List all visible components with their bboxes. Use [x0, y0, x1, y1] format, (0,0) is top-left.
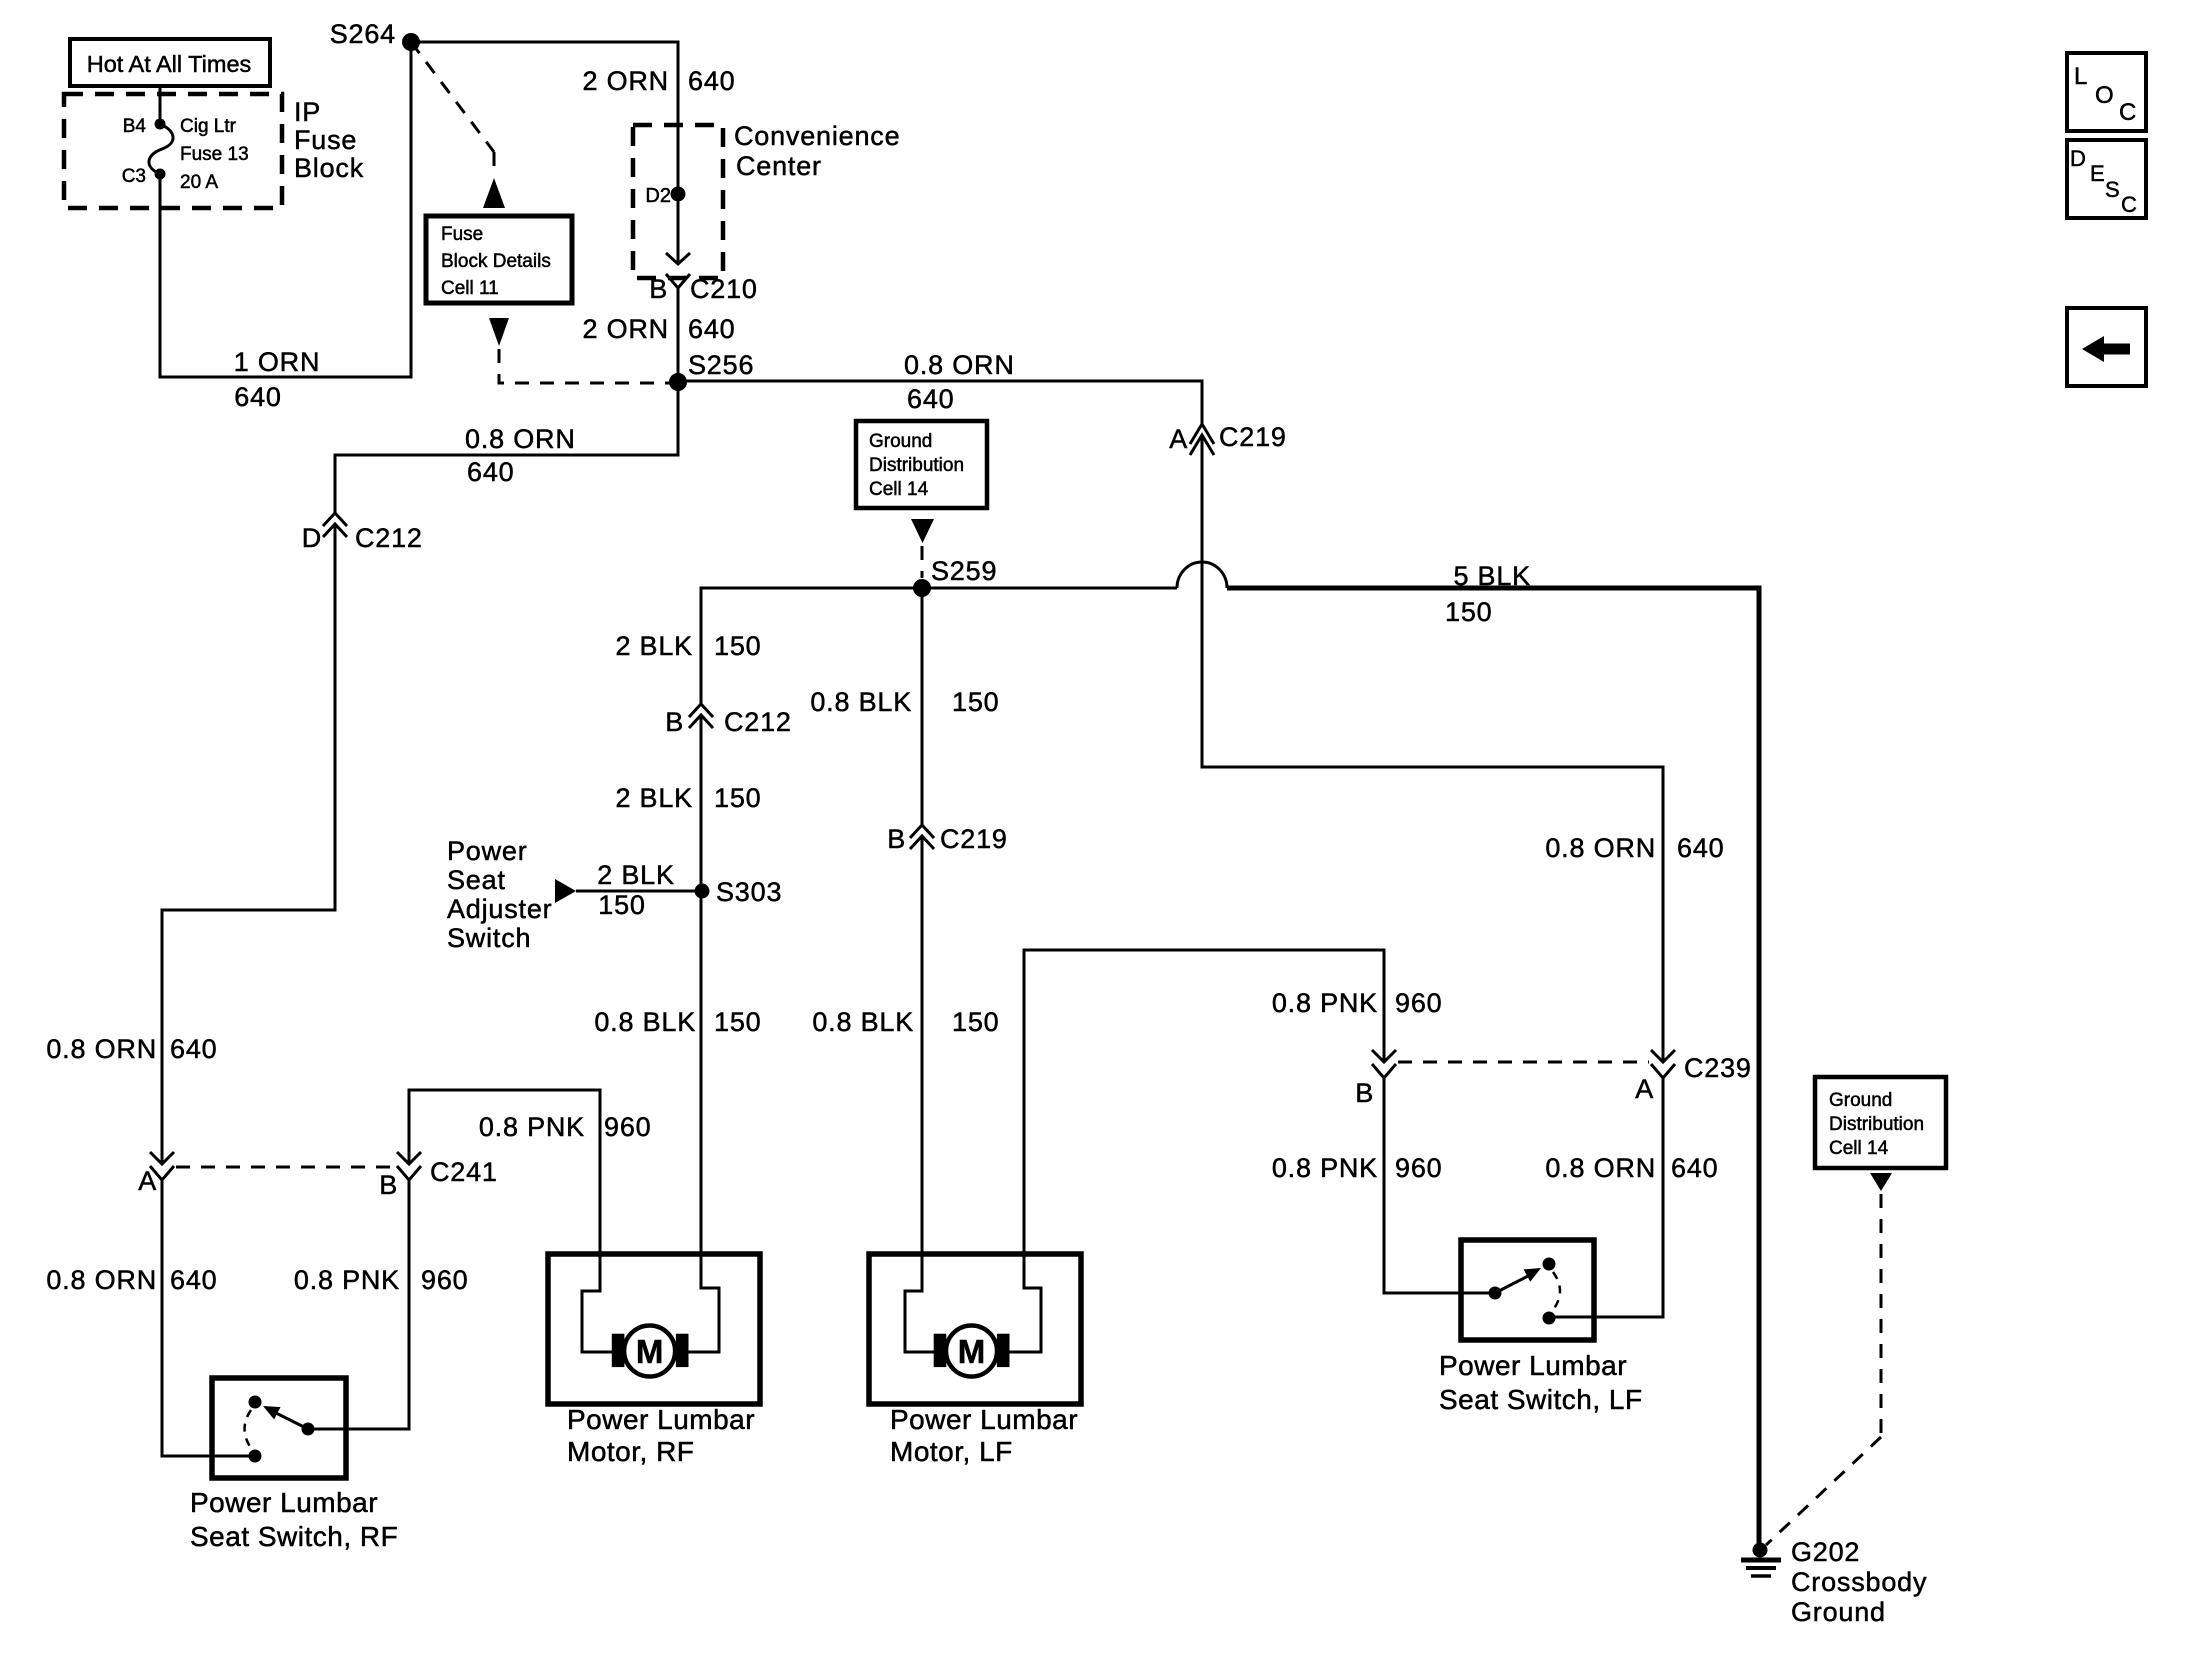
reference box Fuse Block Details Cell 11: [426, 216, 572, 303]
svg-text:Ground: Ground: [1829, 1090, 1892, 1111]
svg-text:20 A: 20 A: [180, 172, 218, 193]
svg-text:Crossbody: Crossbody: [1791, 1567, 1927, 1597]
dashed leader from box to S259: [921, 546, 924, 578]
svg-text:C219: C219: [1219, 422, 1287, 452]
svg-text:S: S: [2105, 177, 2120, 202]
dashed connector line C241: [176, 1166, 396, 1169]
svg-text:Fuse 13: Fuse 13: [180, 144, 249, 165]
wire 0.8 PNK 960 from C239 B to Power Lumbar Seat Switch LF: [1384, 1078, 1495, 1293]
svg-text:A: A: [1169, 424, 1188, 454]
svg-text:Power Lumbar: Power Lumbar: [1439, 1350, 1627, 1381]
svg-text:0.8 ORN: 0.8 ORN: [46, 1034, 157, 1064]
svg-text:150: 150: [714, 631, 761, 661]
wire 0.8 PNK 960 from C241 B to motor RF: [409, 1090, 600, 1254]
wire 0.8 ORN 640 from S256 left down to connector C212 D: [335, 381, 678, 513]
ground distribution reference box (right): [1815, 1077, 1946, 1168]
svg-text:0.8 PNK: 0.8 PNK: [1272, 1153, 1378, 1183]
svg-text:0.8 BLK: 0.8 BLK: [812, 1007, 914, 1037]
svg-text:150: 150: [1445, 597, 1492, 627]
arrow down from top ground distribution box: [911, 519, 934, 543]
motor Power Lumbar Motor LF: [869, 1254, 1081, 1467]
svg-text:Adjuster: Adjuster: [447, 894, 552, 924]
svg-text:O: O: [2095, 82, 2114, 109]
wire 0.8 PNK 960 from motor LF to connector C239 B: [1024, 950, 1384, 1254]
svg-text:B: B: [665, 707, 684, 737]
svg-text:Distribution: Distribution: [869, 455, 964, 476]
Convenience Center dashed box: [633, 121, 900, 278]
wire 0.8 ORN 640 from C212 D to connector C241 A: [162, 524, 335, 1164]
wire 0.8 ORN 640 from C241 A to Power Lumbar Seat Switch RF: [162, 1180, 255, 1456]
switch Power Lumbar Seat Switch LF: [1439, 1240, 1643, 1415]
svg-text:A: A: [1635, 1074, 1654, 1104]
svg-text:2 BLK: 2 BLK: [615, 631, 693, 661]
svg-text:Power: Power: [447, 836, 528, 866]
splice S259: [913, 579, 931, 597]
svg-text:640: 640: [170, 1265, 217, 1295]
svg-text:960: 960: [604, 1112, 651, 1142]
svg-text:2 BLK: 2 BLK: [597, 860, 675, 890]
svg-text:A: A: [138, 1166, 157, 1196]
svg-text:2 BLK: 2 BLK: [615, 783, 693, 813]
power label box "Hot At All Times": [70, 39, 270, 86]
svg-text:0.8 BLK: 0.8 BLK: [810, 687, 912, 717]
svg-text:Seat: Seat: [447, 865, 506, 895]
svg-text:L: L: [2074, 63, 2087, 90]
svg-text:0.8 ORN: 0.8 ORN: [46, 1265, 157, 1295]
svg-text:C: C: [2119, 99, 2136, 126]
svg-text:C212: C212: [355, 523, 423, 553]
svg-text:S264: S264: [330, 19, 396, 49]
svg-text:B: B: [887, 824, 906, 854]
wire 1 ORN 640 from C3 up to splice S264: [160, 42, 411, 377]
svg-text:2 ORN: 2 ORN: [582, 66, 669, 96]
svg-text:C: C: [2121, 192, 2137, 217]
svg-text:Distribution: Distribution: [1829, 1114, 1924, 1135]
connector C210 pin B: [649, 253, 758, 304]
svg-text:Convenience: Convenience: [734, 121, 900, 151]
svg-text:150: 150: [598, 890, 645, 920]
svg-text:640: 640: [1677, 833, 1724, 863]
svg-text:S256: S256: [688, 350, 754, 380]
svg-text:C241: C241: [430, 1157, 498, 1187]
svg-text:D: D: [302, 523, 322, 553]
svg-text:Fuse: Fuse: [294, 125, 357, 155]
svg-text:Power Lumbar: Power Lumbar: [190, 1487, 378, 1518]
svg-text:Ground: Ground: [1791, 1597, 1886, 1627]
splice S256: [669, 373, 687, 391]
legend box DESC: [2067, 140, 2146, 218]
svg-text:640: 640: [467, 457, 514, 487]
svg-text:C239: C239: [1684, 1053, 1752, 1083]
svg-text:B: B: [379, 1170, 398, 1200]
wire 2 BLK / 0.8 BLK 150 from motor RF up to connector C212 B: [700, 715, 703, 1254]
node B4: [155, 119, 166, 130]
wire 2 ORN 640 from C210 to splice S256: [677, 288, 680, 381]
svg-text:C3: C3: [122, 166, 146, 187]
svg-text:640: 640: [234, 382, 281, 412]
svg-text:B4: B4: [123, 116, 147, 137]
arrow down from Fuse Block Details: [489, 318, 509, 346]
svg-text:D: D: [2070, 146, 2086, 171]
svg-text:Center: Center: [736, 151, 822, 181]
svg-text:1 ORN: 1 ORN: [234, 347, 321, 377]
svg-text:M: M: [636, 1333, 664, 1370]
svg-text:B: B: [649, 274, 668, 304]
connector C241 pin A: [138, 1152, 174, 1196]
splice S264: [402, 33, 420, 51]
arrow down from ground distribution box: [1870, 1173, 1892, 1191]
connector C219 pin A: [1169, 422, 1287, 455]
svg-text:E: E: [2090, 161, 2105, 186]
svg-text:640: 640: [170, 1034, 217, 1064]
svg-text:150: 150: [714, 1007, 761, 1037]
wire 0.8 ORN 640 from C239 A to Power Lumbar Seat Switch LF: [1549, 1078, 1663, 1317]
svg-text:G202: G202: [1791, 1537, 1860, 1567]
svg-text:M: M: [958, 1333, 986, 1370]
svg-text:Fuse: Fuse: [441, 224, 483, 245]
svg-text:150: 150: [714, 783, 761, 813]
node D2: [671, 187, 686, 202]
dashed leader from ground distribution box to G202: [1880, 1194, 1883, 1437]
svg-text:Cig Ltr: Cig Ltr: [180, 116, 237, 137]
svg-text:640: 640: [688, 314, 735, 344]
IP Fuse Block dashed box: [64, 94, 364, 208]
svg-text:Cell 11: Cell 11: [441, 278, 499, 299]
svg-text:S259: S259: [931, 556, 997, 586]
svg-text:0.8 ORN: 0.8 ORN: [465, 424, 576, 454]
wire 0.8 ORN 640 from C219 down and right to connector C239: [1202, 435, 1663, 1062]
motor Power Lumbar Motor RF: [548, 1254, 760, 1467]
wire 0.8 ORN 640 from S256 right to connector C219: [678, 381, 1202, 424]
connector C241 pin B: [379, 1152, 421, 1200]
dashed leader from S264 to Fuse Block Details: [411, 42, 494, 152]
node C3: [155, 169, 166, 180]
svg-text:Cell 14: Cell 14: [1829, 1138, 1889, 1159]
wire 2 ORN 640 from S264 to Convenience Center: [411, 42, 678, 264]
svg-text:Switch: Switch: [447, 923, 531, 953]
svg-text:0.8 ORN: 0.8 ORN: [1545, 833, 1656, 863]
connector C239 pin B: [1355, 1050, 1396, 1108]
svg-text:960: 960: [1395, 988, 1442, 1018]
svg-text:Cell 14: Cell 14: [869, 479, 929, 500]
ground distribution reference box (top): [856, 421, 987, 508]
svg-text:0.8 PNK: 0.8 PNK: [1272, 988, 1378, 1018]
svg-text:Hot At All Times: Hot At All Times: [87, 51, 252, 77]
fuse F13 Cig Ltr Fuse 13 20 A: [149, 124, 173, 174]
svg-text:150: 150: [952, 1007, 999, 1037]
svg-text:960: 960: [1395, 1153, 1442, 1183]
wire 2 BLK 150 from C212 B up to splice S259: [701, 588, 1177, 704]
connector C239 pin A: [1635, 1050, 1752, 1104]
svg-text:640: 640: [907, 384, 954, 414]
wire 0.8 BLK 150 from S259 down to connector C219 B: [921, 588, 924, 825]
svg-text:Ground: Ground: [869, 431, 932, 452]
svg-text:0.8 PNK: 0.8 PNK: [479, 1112, 585, 1142]
svg-text:C210: C210: [690, 274, 758, 304]
svg-text:Seat Switch, LF: Seat Switch, LF: [1439, 1384, 1643, 1415]
wire 2 BLK 150 to Power Seat Adjuster Switch: [576, 890, 702, 893]
connector C212 pin B: [665, 704, 792, 737]
ground G202 Crossbody Ground: [1741, 1537, 1927, 1627]
svg-text:Block: Block: [294, 153, 364, 183]
wire hop over vertical ORN wire: [1177, 562, 1227, 588]
svg-text:Motor, LF: Motor, LF: [890, 1436, 1013, 1467]
svg-text:2 ORN: 2 ORN: [582, 314, 669, 344]
svg-text:640: 640: [1671, 1153, 1718, 1183]
switch Power Lumbar Seat Switch RF: [190, 1378, 398, 1552]
legend box back arrow: [2067, 308, 2146, 386]
svg-text:0.8 ORN: 0.8 ORN: [1545, 1153, 1656, 1183]
svg-text:IP: IP: [294, 97, 321, 127]
svg-text:C212: C212: [724, 707, 792, 737]
svg-text:D2: D2: [645, 185, 671, 207]
wire 5 BLK 150 to G202 ground: [1227, 588, 1759, 1550]
svg-text:5 BLK: 5 BLK: [1453, 561, 1531, 591]
arrow up into Fuse Block Details: [483, 178, 505, 208]
svg-text:Seat Switch, RF: Seat Switch, RF: [190, 1521, 398, 1552]
svg-text:B: B: [1355, 1078, 1374, 1108]
svg-text:Block Details: Block Details: [441, 251, 551, 272]
legend box LOC: [2067, 53, 2146, 131]
dashed connector line C239: [1398, 1061, 1649, 1064]
svg-text:640: 640: [688, 66, 735, 96]
svg-text:Power Lumbar: Power Lumbar: [567, 1404, 755, 1435]
svg-text:0.8 ORN: 0.8 ORN: [904, 350, 1015, 380]
svg-text:Power Lumbar: Power Lumbar: [890, 1404, 1078, 1435]
svg-text:150: 150: [952, 687, 999, 717]
splice S303: [695, 884, 710, 899]
connector C212 pin D: [302, 513, 423, 553]
svg-text:0.8 BLK: 0.8 BLK: [594, 1007, 696, 1037]
svg-text:Motor, RF: Motor, RF: [567, 1436, 694, 1467]
svg-text:0.8 PNK: 0.8 PNK: [294, 1265, 400, 1295]
wire 0.8 PNK 960 from switch RF to connector C241 B: [308, 1180, 409, 1429]
wire from Hot At All Times to fuse terminal B4: [159, 86, 162, 124]
svg-text:960: 960: [421, 1265, 468, 1295]
connector C219 pin B: [887, 824, 1008, 854]
svg-text:C219: C219: [940, 824, 1008, 854]
svg-text:S303: S303: [716, 877, 782, 907]
dashed leader from Fuse Block Details to S256: [499, 349, 672, 383]
wire 0.8 BLK 150 from C219 B to motor LF: [921, 836, 924, 1254]
